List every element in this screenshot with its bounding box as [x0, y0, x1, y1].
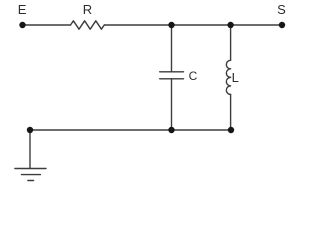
ground bar 2 [22, 174, 41, 176]
wire: capacitor branch top [171, 25, 173, 72]
capacitor C1 bottom plate [160, 78, 184, 80]
wire: ground stem [29, 130, 31, 169]
node S terminal dot [279, 22, 285, 28]
resistor R1 zigzag [71, 21, 105, 29]
inductor L1 coil [226, 60, 230, 94]
ground bar 1 [15, 168, 46, 170]
wire: capacitor branch bottom [171, 79, 173, 130]
capacitor C1 top plate [160, 71, 184, 73]
wire: bottom return [30, 129, 231, 131]
wire: resistor to S node [104, 24, 282, 26]
junction: inductor top [227, 22, 233, 28]
svg-text:R: R [83, 2, 92, 17]
svg-text:C: C [189, 69, 198, 83]
svg-text:E: E [18, 2, 27, 17]
ground bar 3 [28, 180, 34, 182]
junction: capacitor top [168, 22, 174, 28]
wire: inductor branch top [230, 25, 232, 60]
svg-text:S: S [277, 2, 286, 17]
junction: capacitor bottom [168, 127, 174, 133]
node E terminal dot [19, 22, 25, 28]
junction: inductor bottom [228, 127, 234, 133]
wire: inductor branch bottom [230, 95, 232, 131]
wire: E node to resistor [23, 24, 71, 26]
svg-text:L: L [232, 70, 239, 85]
junction: bottom-left [27, 127, 33, 133]
